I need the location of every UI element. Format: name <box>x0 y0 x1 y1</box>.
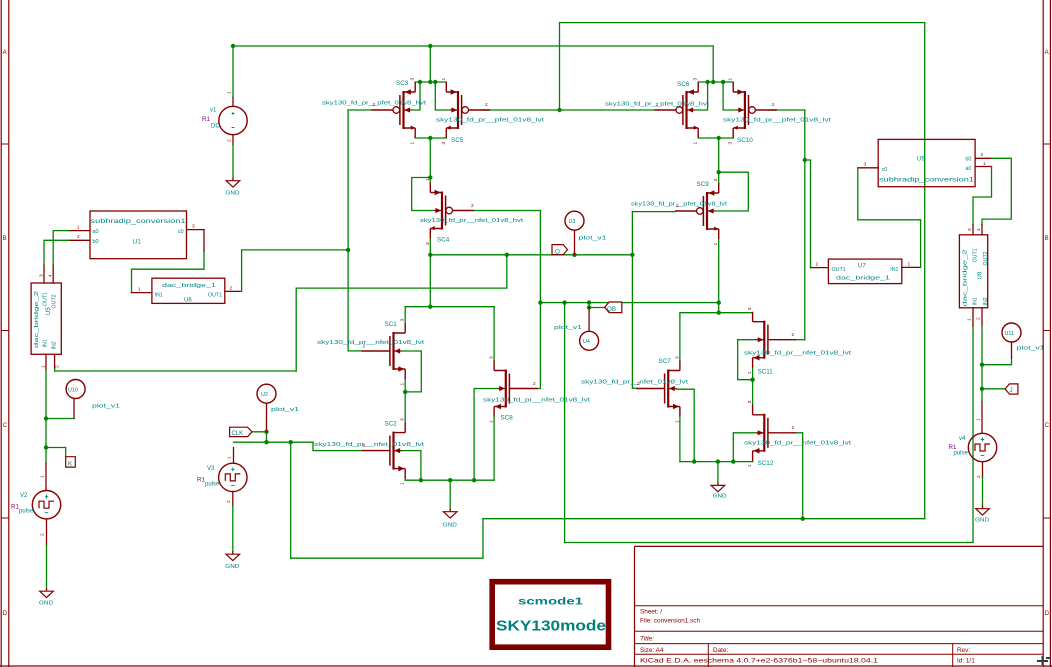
ground symbol SC7 rail <box>711 482 725 492</box>
wire U8 in2 to V4 <box>981 326 983 402</box>
pin 2 U7 <box>811 267 829 269</box>
wire SC2 gate jog <box>313 442 362 450</box>
junction SC3 drain bus <box>428 136 432 140</box>
junction SC6 drain bus <box>717 136 721 140</box>
svg-text:3: 3 <box>747 400 753 403</box>
svg-text:1: 1 <box>441 78 447 81</box>
wire SC7 SC11 drain line <box>680 312 753 314</box>
svg-text:sky130_fd_pr__nfet_01v8_lvt: sky130_fd_pr__nfet_01v8_lvt <box>581 380 689 386</box>
junction U6 out riser <box>346 248 350 252</box>
transistor SC3 <box>372 82 416 138</box>
transistor SC6 <box>655 82 699 138</box>
svg-text:3: 3 <box>425 242 431 245</box>
junction SC6 bus right <box>721 80 725 84</box>
svg-text:2: 2 <box>226 500 232 503</box>
svg-text:D: D <box>1045 611 1050 617</box>
wire SC1 source to SC2 drain <box>404 379 406 423</box>
svg-text:4: 4 <box>976 228 982 231</box>
junction SC11 source <box>750 378 754 382</box>
junction QB label tap <box>587 305 591 309</box>
svg-text:D: D <box>3 611 8 617</box>
wire rail drop to SC3/SC5 source bus <box>429 46 431 82</box>
svg-text:3: 3 <box>713 179 719 182</box>
svg-text:IN2: IN2 <box>983 297 989 305</box>
ground symbol V3 <box>226 551 240 561</box>
svg-text:1: 1 <box>41 365 47 368</box>
block U5 dac_bridge_2 <box>31 283 61 354</box>
wire SC9 gate riser <box>631 212 633 389</box>
wire V1 to GND <box>232 145 234 178</box>
svg-text:3: 3 <box>747 307 753 310</box>
svg-text:plot_v1: plot_v1 <box>92 404 120 410</box>
svg-text:pulse: pulse <box>19 509 34 515</box>
svg-text:c0: c0 <box>882 167 888 173</box>
svg-text:3: 3 <box>39 274 45 277</box>
page frame left border <box>1 0 9 667</box>
junction chain at K <box>44 445 48 449</box>
transistor SC7 <box>636 361 680 417</box>
wire SC2 bulk loop <box>402 451 421 481</box>
svg-text:GND: GND <box>226 191 240 197</box>
wire U1 pin2 to U5 <box>44 240 69 265</box>
svg-text:sky130_fd_pr__nfet_01v8_lvt: sky130_fd_pr__nfet_01v8_lvt <box>744 441 852 447</box>
wire net CLK label line <box>234 441 314 443</box>
svg-text:1: 1 <box>908 261 911 267</box>
svg-text:U7: U7 <box>858 264 866 270</box>
junction QB branch <box>562 300 566 304</box>
svg-text:scmode1: scmode1 <box>518 596 583 608</box>
svg-text:2: 2 <box>656 102 659 108</box>
junction QB right end <box>717 300 721 304</box>
svg-text:1: 1 <box>674 420 680 423</box>
svg-text:3: 3 <box>400 319 406 322</box>
wire net CLK gate line SC5 to SC6 <box>480 109 655 111</box>
wire U1 pin3 vertical <box>203 230 205 251</box>
svg-text:A: A <box>3 50 7 56</box>
wire QB to SC8 gate <box>537 303 540 389</box>
ground symbol V2 <box>40 588 54 598</box>
svg-text:plot_v1: plot_v1 <box>271 407 299 413</box>
svg-text:Q: Q <box>555 249 560 256</box>
wire SC12 source drop <box>752 460 754 463</box>
junction chain at U10 <box>44 416 48 420</box>
svg-text:2: 2 <box>981 152 984 158</box>
wire rail drop to SC6/SC10 source bus <box>712 46 714 82</box>
wire SC7 gate feed <box>632 387 636 389</box>
svg-text:U4: U4 <box>583 339 590 345</box>
junction SC7 bulk <box>692 459 696 463</box>
title block outline <box>635 546 1044 667</box>
svg-text:1: 1 <box>138 287 141 293</box>
svg-text:SC6: SC6 <box>677 81 690 88</box>
wire U7 in2 branch <box>805 160 811 268</box>
svg-text:DC: DC <box>211 124 220 130</box>
wire U6 out1 up <box>240 250 348 292</box>
svg-text:sky130_fd_pr__pfet_01v8_lvt: sky130_fd_pr__pfet_01v8_lvt <box>631 202 728 208</box>
transistor SC2 <box>362 423 406 479</box>
scmode annotation box <box>492 582 608 648</box>
wire SC8 bulk tie <box>474 389 497 481</box>
page frame bottom border <box>0 665 1052 667</box>
svg-text:1: 1 <box>410 142 416 145</box>
wire SC9 drain bulk loop <box>716 172 749 211</box>
svg-text:1: 1 <box>227 456 233 459</box>
svg-text:3: 3 <box>967 228 973 231</box>
wire SC3 bulk tie <box>412 82 420 110</box>
wire U1 out c0 link <box>132 251 205 293</box>
junction CLK at SC12 gate <box>801 517 805 521</box>
svg-text:dac_bridge_2: dac_bridge_2 <box>963 249 969 306</box>
svg-text:SKY130mode: SKY130mode <box>496 618 606 635</box>
svg-text:OUT2: OUT2 <box>52 294 58 308</box>
junction Q right end <box>630 253 634 257</box>
svg-text:1: 1 <box>967 318 973 321</box>
svg-text:A: A <box>1045 50 1049 56</box>
svg-text:v4: v4 <box>959 436 966 442</box>
svg-text:SC12: SC12 <box>758 460 774 467</box>
svg-text:3: 3 <box>410 78 416 81</box>
svg-text:R1: R1 <box>202 116 210 123</box>
svg-text:3: 3 <box>441 142 447 145</box>
wire SC1 bulk loop <box>402 351 422 392</box>
global label K <box>66 457 76 467</box>
svg-text:IN1: IN1 <box>155 293 163 299</box>
wire V3 to GND <box>232 506 234 551</box>
wire SC9 gate feed <box>632 211 675 213</box>
junction V4 chain at J <box>980 387 984 391</box>
wire SC12 gate drop <box>796 433 802 519</box>
svg-text:b0: b0 <box>965 157 971 163</box>
pin 1 U5 <box>45 354 47 370</box>
svg-text:U2: U2 <box>261 392 268 398</box>
svg-text:1: 1 <box>713 243 719 246</box>
svg-text:b0: b0 <box>93 239 99 245</box>
svg-text:IN1: IN1 <box>973 297 979 305</box>
wire SC4 gate to QB drop <box>539 211 541 303</box>
svg-text:U10: U10 <box>68 388 78 394</box>
probe U4 plot_v1 <box>588 308 590 332</box>
svg-text:1: 1 <box>728 78 734 81</box>
svg-text:SC8: SC8 <box>501 415 514 422</box>
svg-text:2: 2 <box>976 475 982 478</box>
global label CLK <box>230 427 252 436</box>
wire SC6/SC10 drain bus <box>698 137 733 139</box>
pin 1 U7 <box>902 266 921 268</box>
pin 1 U1 <box>69 230 91 232</box>
voltage source V2 pulse <box>32 491 60 519</box>
svg-text:File: conversion1.sch: File: conversion1.sch <box>640 618 700 625</box>
frame tick marks right <box>1043 144 1050 518</box>
ground symbol SC2 rail <box>443 509 457 519</box>
wire SC11 gate feed <box>796 339 805 341</box>
voltage source V3 pulse <box>219 463 247 491</box>
wire SC6/SC10 source bus <box>698 81 733 83</box>
svg-text:2: 2 <box>816 262 819 268</box>
svg-text:SC3: SC3 <box>396 80 409 87</box>
wire SC3 gate feed <box>348 109 371 111</box>
pin 2 U8 <box>981 308 983 326</box>
junction Q at U3 <box>572 253 576 257</box>
wire net CLK top span <box>560 22 925 24</box>
junction SC6 bus center <box>711 80 715 84</box>
title block row lines <box>635 606 1044 655</box>
junction SC9 drain loop <box>717 170 721 174</box>
svg-text:QB: QB <box>607 306 616 313</box>
svg-text:C: C <box>3 423 8 429</box>
junction SC3 bus left <box>418 80 422 84</box>
svg-text:SC11: SC11 <box>758 369 774 376</box>
wire QB branch right riser to U8 <box>565 326 973 543</box>
transistor SC12 <box>753 405 797 461</box>
svg-text:IN1: IN1 <box>42 339 48 347</box>
svg-text:CLK: CLK <box>232 431 244 437</box>
svg-text:U11: U11 <box>1005 331 1015 337</box>
wire VDD top rail <box>233 45 713 47</box>
pin 2 U1 <box>69 239 91 241</box>
pin 2 U5 <box>54 354 56 368</box>
wire SC7 drain drop <box>679 313 681 361</box>
svg-text:1: 1 <box>747 464 753 467</box>
wire SC12 bulk tie <box>733 433 756 462</box>
wire U1 pin1 to U5 <box>53 231 68 266</box>
wire Q branch down <box>296 255 507 371</box>
transistor SC1 <box>362 323 406 379</box>
wire SC1 gate feed <box>348 350 361 352</box>
svg-text:2: 2 <box>485 102 488 108</box>
wire QB branch down <box>564 303 566 543</box>
svg-text:1: 1 <box>747 371 753 374</box>
junction CLK label tap <box>264 430 268 434</box>
svg-text:sky130_fd_pr__nfet_01v8_lvt: sky130_fd_pr__nfet_01v8_lvt <box>317 340 425 346</box>
pin 1 U6 <box>132 292 152 294</box>
svg-text:SC4: SC4 <box>437 237 450 244</box>
junction rail at SC3 bus <box>428 44 432 48</box>
svg-text:B: B <box>1045 236 1049 242</box>
svg-text:4: 4 <box>48 274 54 277</box>
pin 1 U8 <box>972 308 974 326</box>
page frame right border <box>1043 0 1050 667</box>
block U7 dac_bridge_1 <box>828 259 901 284</box>
block U6 dac_bridge_1 <box>152 278 225 303</box>
svg-text:plot_v1: plot_v1 <box>579 236 607 242</box>
svg-text:2: 2 <box>792 425 795 431</box>
junction CLK left riser <box>289 440 293 444</box>
wire SC1 drain stub up <box>404 307 406 323</box>
svg-text:OUT1: OUT1 <box>42 292 48 306</box>
wire SC4 gate line <box>474 210 540 212</box>
pin 3 U5 <box>43 265 45 283</box>
pin 1 V2 <box>45 463 47 490</box>
wire U9 c0 to U7 in1 <box>858 169 921 267</box>
wire SC8 drain drop <box>493 307 495 361</box>
wire SC10 bulk tie <box>723 82 737 110</box>
pin 1 V3 <box>233 448 235 464</box>
wire QB label tap <box>589 303 605 308</box>
junction SC4 drain loop <box>428 175 432 179</box>
wire SC2 source rail <box>405 479 494 481</box>
svg-text:sky130_fd_pr__nfet_01v8_lvt: sky130_fd_pr__nfet_01v8_lvt <box>314 442 425 448</box>
svg-text:GND: GND <box>975 518 989 524</box>
voltage source V4 pulse <box>968 433 996 461</box>
svg-text:U3: U3 <box>569 219 576 225</box>
block U9 subhradip_conversion1 <box>878 139 975 186</box>
wire J tap <box>982 388 1006 390</box>
svg-text:3: 3 <box>674 356 680 359</box>
wire SC5 bulk tie <box>435 82 449 110</box>
ground symbol V4 <box>976 506 990 516</box>
wire SC7 SC12 source rail <box>680 461 753 463</box>
svg-text:3: 3 <box>728 142 734 145</box>
junction QB left <box>538 300 542 304</box>
svg-text:OUT1: OUT1 <box>832 267 846 273</box>
svg-text:SC2: SC2 <box>385 421 398 428</box>
svg-text:3: 3 <box>192 224 195 230</box>
svg-text:a0: a0 <box>93 229 99 235</box>
svg-text:2: 2 <box>363 443 366 449</box>
svg-text:subhradip_conversion1: subhradip_conversion1 <box>91 219 187 225</box>
probe U3 plot_v1 <box>574 230 576 255</box>
pin 2 V4 <box>982 462 984 477</box>
svg-text:U9: U9 <box>917 157 925 163</box>
wire U5 pin2 corner <box>54 369 56 372</box>
svg-text:subhradip_conversion1: subhradip_conversion1 <box>879 178 975 184</box>
svg-text:3: 3 <box>400 418 406 421</box>
svg-text:SC1: SC1 <box>385 321 398 328</box>
wire net CLK bottom span <box>483 518 925 520</box>
wire SC7 source drop <box>679 417 681 462</box>
junction SC3 bus right <box>433 80 437 84</box>
pin 2 V1 <box>232 135 234 145</box>
pin 4 U5 <box>52 265 54 283</box>
wire SC10 gate line <box>769 109 805 111</box>
wire V2 to GND <box>46 545 48 588</box>
wire SC4 drain bulk loop <box>412 178 434 211</box>
svg-text:pulse: pulse <box>954 451 969 457</box>
svg-text:2: 2 <box>676 203 679 209</box>
svg-text:GND: GND <box>713 494 727 500</box>
junction SC1 bulk <box>403 390 407 394</box>
svg-text:SC9: SC9 <box>697 181 710 188</box>
junction V4 chain at U11 <box>980 363 984 367</box>
probe U10 plot_v1 <box>73 399 75 419</box>
svg-text:2: 2 <box>471 203 474 209</box>
svg-text:SC5: SC5 <box>451 137 464 144</box>
wire U5 pin1 down chain <box>45 370 47 463</box>
block U8 dac_bridge_2 <box>959 235 987 308</box>
svg-text:SC7: SC7 <box>659 358 672 365</box>
svg-text:U8: U8 <box>978 271 984 279</box>
wire SC7 bulk tie <box>677 389 695 461</box>
wire SC6 pair to SC9 drain <box>718 138 720 183</box>
pin 2 V2 <box>46 519 48 545</box>
svg-text:1: 1 <box>227 91 233 94</box>
wire SC4 source drop <box>429 239 431 307</box>
svg-text:1: 1 <box>489 420 495 423</box>
svg-text:1: 1 <box>400 482 406 485</box>
wire SC8 source drop <box>493 417 495 481</box>
frame tick marks left <box>1 144 9 518</box>
svg-text:dac_bridge_2: dac_bridge_2 <box>34 291 40 348</box>
svg-text:dac_bridge_1: dac_bridge_1 <box>162 283 216 289</box>
ground symbol V1 <box>226 178 240 188</box>
junction CLK at U2 <box>264 440 268 444</box>
svg-text:1: 1 <box>40 475 46 478</box>
svg-text:U1: U1 <box>133 240 141 246</box>
svg-text:OUT2: OUT2 <box>983 251 989 265</box>
svg-text:2: 2 <box>77 234 80 240</box>
wire V1 plus to rail <box>232 46 234 97</box>
svg-text:GND: GND <box>225 564 239 570</box>
pin 2 U6 <box>225 290 240 292</box>
title block column dividers <box>708 644 952 667</box>
wire SC2 source drop <box>404 479 406 481</box>
junction SC2 bulk <box>419 478 423 482</box>
svg-text:dac_bridge_1: dac_bridge_1 <box>836 276 890 282</box>
wire U9 b0 to U8 pin4 <box>982 158 1011 224</box>
svg-text:1: 1 <box>425 178 431 181</box>
svg-text:2: 2 <box>40 533 46 536</box>
junction SC8 bulk <box>472 478 476 482</box>
svg-text:Title:: Title: <box>640 636 654 643</box>
svg-text:3: 3 <box>864 162 867 168</box>
wire net CLK bottom jog <box>291 519 483 559</box>
wire SC9 source drop <box>718 239 720 313</box>
junction left rail GND <box>448 478 452 482</box>
wire SC3/SC5 source bus <box>415 81 446 83</box>
transistor SC9 <box>675 183 719 239</box>
wire U11 tap <box>982 358 1012 365</box>
wire net Q line <box>430 254 632 256</box>
svg-text:2: 2 <box>55 365 61 368</box>
wire U9 a0 to U8 pin3 <box>973 167 992 225</box>
wire net CLK left riser <box>290 442 292 558</box>
block U1 subhradip_conversion1 <box>90 211 187 259</box>
svg-text:plot_v1: plot_v1 <box>554 325 582 331</box>
pin 1 U9 <box>975 166 991 168</box>
junction y307 at SC4 drop <box>428 305 432 309</box>
transistor SC5 <box>446 82 490 138</box>
wire net CLK right drop <box>924 23 926 519</box>
pin 3 U1 <box>187 229 205 231</box>
svg-text:sky130_fd_pr__pfet_01v8_lvt: sky130_fd_pr__pfet_01v8_lvt <box>436 118 545 124</box>
transistor SC8 <box>494 361 538 417</box>
wire net QB line <box>540 302 718 304</box>
svg-text:OUT1: OUT1 <box>973 248 979 262</box>
wire net CLK riser <box>559 23 561 110</box>
svg-text:sky130_fd_pr__nfet_01v8_lvt: sky130_fd_pr__nfet_01v8_lvt <box>744 351 852 357</box>
svg-text:Rev:: Rev: <box>957 647 970 654</box>
junction Q branch <box>505 253 509 257</box>
svg-text:v1: v1 <box>210 108 217 114</box>
svg-text:c0: c0 <box>178 229 184 235</box>
svg-text:sky130_fd_pr__nfet_01v8_lvt: sky130_fd_pr__nfet_01v8_lvt <box>483 398 591 404</box>
svg-text:SC10: SC10 <box>737 137 753 144</box>
svg-text:2: 2 <box>637 381 640 387</box>
wire U10 tap <box>46 418 74 420</box>
transistor SC11 <box>753 312 797 368</box>
svg-text:J: J <box>1010 387 1013 394</box>
junction QB at U4 <box>587 300 591 304</box>
voltage source V1 DC <box>219 106 247 134</box>
svg-text:3: 3 <box>489 356 495 359</box>
svg-text:V3: V3 <box>207 466 215 472</box>
svg-text:IN2: IN2 <box>52 341 58 349</box>
svg-text:2: 2 <box>792 332 795 338</box>
global label Q <box>552 245 568 255</box>
wire SC3/SC5 drain bus <box>415 137 446 139</box>
svg-text:U5: U5 <box>46 307 52 315</box>
svg-text:2: 2 <box>227 139 233 142</box>
